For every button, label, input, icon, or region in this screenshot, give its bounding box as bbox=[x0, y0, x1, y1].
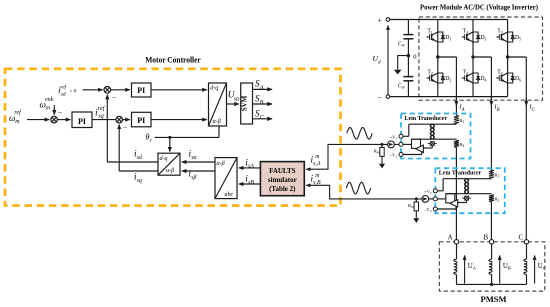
wire PI1 to dq-alphabeta block bbox=[151, 89, 207, 91]
capacitor leg wire bottom bbox=[407, 81, 409, 97]
svg-text:0: 0 bbox=[413, 53, 416, 60]
PI controller d-axis current (PI1) bbox=[132, 83, 152, 97]
svg-text:Lem Transducer: Lem Transducer bbox=[439, 170, 482, 177]
summing junction 1 (isd) bbox=[104, 87, 111, 94]
phase node A bbox=[436, 55, 439, 58]
wire isq feedback horizontal bbox=[119, 170, 158, 172]
sine wave symbol phase B bbox=[346, 182, 370, 194]
wire SVM output S_A bbox=[253, 88, 273, 90]
Lem Transducer B terminal M bbox=[433, 197, 437, 201]
svg-text:Power Module AC/DC (Voltage In: Power Module AC/DC (Voltage Inverter) bbox=[420, 3, 538, 12]
svg-text:m: m bbox=[46, 106, 51, 112]
transducer A measuring resistor RM bbox=[380, 148, 384, 157]
Lem Transducer A resistor R1 bbox=[454, 116, 459, 125]
svg-text:A: A bbox=[448, 234, 453, 242]
Lem Transducer A primary top wire bbox=[409, 123, 457, 125]
svg-text:sq: sq bbox=[98, 112, 104, 119]
svg-text:M: M bbox=[377, 151, 380, 155]
PMSM terminal B bbox=[489, 240, 493, 244]
summing junction 3 (isq) bbox=[116, 116, 123, 123]
svg-text:Motor Controller: Motor Controller bbox=[145, 56, 201, 65]
inverter leg A wire bbox=[437, 20, 439, 97]
Lem Transducer B terminal +Vc bbox=[433, 189, 437, 193]
Lem Transducer B mid terminal wire bbox=[435, 198, 446, 200]
transducer A ground bbox=[381, 156, 383, 164]
svg-text:–: – bbox=[111, 93, 116, 101]
transducer B ground bbox=[415, 211, 417, 219]
wire theta_r horizontal bbox=[155, 136, 220, 138]
svg-text:m: m bbox=[315, 154, 319, 160]
wire phase tap B bbox=[473, 56, 491, 58]
phase A line to PMSM bbox=[455, 147, 457, 242]
IGBT T6 with diode D6 bbox=[501, 73, 507, 76]
Lem Transducer A secondary bottom wire bbox=[412, 138, 457, 140]
wire junction1 to PI1 bbox=[111, 89, 130, 91]
DC bus negative rail bbox=[390, 96, 508, 98]
PMSM dashed box bbox=[439, 242, 544, 291]
wire phase tap C bbox=[508, 56, 527, 58]
svg-text:C: C bbox=[518, 234, 523, 242]
svg-text:5: 5 bbox=[501, 30, 503, 35]
wire dq block to SVM bbox=[227, 103, 239, 105]
svg-text:abc: abc bbox=[225, 192, 234, 198]
svg-text:d-q: d-q bbox=[160, 156, 168, 162]
dq to alpha-beta transformation block (voltage) bbox=[209, 83, 227, 126]
svg-text:3: 3 bbox=[466, 30, 468, 35]
PMSM winding B bbox=[491, 244, 493, 259]
svg-text:PMSM: PMSM bbox=[481, 294, 507, 304]
PMSM terminal A bbox=[454, 240, 458, 244]
svg-text:m: m bbox=[315, 173, 319, 179]
Lem Transducer B dashed box bbox=[435, 168, 505, 213]
wire isd feedback horizontal bbox=[107, 161, 158, 163]
Lem Transducer B secondary bottom wire bbox=[446, 193, 492, 195]
wire SVM output S_C bbox=[253, 118, 273, 120]
svg-text:2: 2 bbox=[431, 71, 433, 76]
svg-text:SVM: SVM bbox=[241, 95, 249, 111]
Lem Transducer B op-amp output wire bbox=[458, 202, 467, 204]
wire phase tap A bbox=[438, 56, 457, 58]
Lem Transducer A op-amp output wire bbox=[423, 147, 432, 149]
PMSM voltage arrow U_A bbox=[464, 256, 466, 284]
Lem Transducer B +Vc riser wire bbox=[442, 179, 444, 191]
svg-text:PI: PI bbox=[78, 117, 86, 126]
svg-text:enk: enk bbox=[45, 97, 54, 103]
Lem Transducer A op-amp loop bbox=[412, 139, 421, 148]
svg-text:5: 5 bbox=[519, 37, 521, 42]
svg-text:M: M bbox=[411, 205, 414, 209]
Lem Transducer B transformer winding bbox=[465, 179, 468, 194]
Lem Transducer B Hall element bbox=[465, 196, 469, 200]
phase A line from inverter bbox=[455, 57, 457, 116]
wire i_sA from FAULTS to abc block bbox=[239, 167, 261, 169]
wire measured current A into FAULTS bbox=[306, 144, 401, 169]
Ud voltage arrow bbox=[387, 26, 389, 95]
Lem Transducer B primary top wire bbox=[443, 178, 491, 180]
transducer B measuring resistor RM bbox=[414, 202, 418, 211]
IGBT T2 with diode D2 bbox=[432, 73, 438, 76]
Lem Transducer A terminal M bbox=[399, 142, 403, 146]
DC midpoint node 0 bbox=[407, 54, 410, 57]
Lem Transducer A -Vc wire bbox=[401, 154, 422, 156]
feedback arrow omega_enk into junction 2 bbox=[53, 105, 55, 115]
svg-text:B: B bbox=[508, 265, 511, 270]
svg-text:–: – bbox=[377, 92, 382, 101]
svg-text:α-β: α-β bbox=[166, 168, 174, 174]
wire speed PI to junction 3 bbox=[92, 119, 116, 121]
PMSM star point wire bbox=[457, 283, 527, 285]
svg-text:1: 1 bbox=[449, 37, 451, 42]
svg-text:+: + bbox=[377, 15, 381, 24]
svg-text:–: – bbox=[57, 108, 62, 116]
IGBT T1 with diode D1 bbox=[432, 32, 438, 35]
Lem Transducer B op-amp loop bbox=[446, 194, 455, 203]
Lem Transducer A Hall element bbox=[430, 142, 434, 146]
svg-text:d-q: d-q bbox=[210, 85, 218, 91]
svg-text:FAULTS: FAULTS bbox=[269, 167, 296, 175]
svg-text:(Table 2): (Table 2) bbox=[269, 185, 296, 193]
Lem Transducer A transformer winding bbox=[431, 124, 434, 139]
svg-text:6: 6 bbox=[501, 71, 503, 76]
PMSM voltage arrow U_C bbox=[534, 256, 536, 284]
Motor Controller dashed boundary box bbox=[5, 69, 341, 206]
wire i_sB from FAULTS to abc block bbox=[239, 183, 261, 185]
node on theta wire bbox=[168, 136, 171, 139]
inverter leg B wire bbox=[472, 20, 474, 97]
wire junction2 to speed PI bbox=[57, 119, 70, 121]
transducer B current direction circle bbox=[422, 196, 429, 203]
wire PI2 to dq-alphabeta block bbox=[151, 119, 207, 121]
svg-text:2: 2 bbox=[497, 198, 499, 202]
svg-text:1: 1 bbox=[462, 120, 464, 124]
capacitor CF top bbox=[403, 34, 413, 36]
PMSM star point node bbox=[490, 283, 493, 286]
wire theta up to tall dq block bbox=[218, 126, 220, 137]
svg-text:6: 6 bbox=[519, 78, 521, 83]
svg-text:3: 3 bbox=[484, 37, 486, 42]
wire junction3 to PI2 bbox=[123, 119, 130, 121]
svg-text:1: 1 bbox=[431, 30, 433, 35]
Lem Transducer A op-amp bbox=[416, 145, 424, 152]
speed PI controller bbox=[72, 112, 92, 128]
wire isd_ref to summing junction 1 bbox=[83, 89, 103, 91]
svg-text:B: B bbox=[483, 234, 488, 242]
phase node B bbox=[471, 55, 474, 58]
midpoint reference arrow bbox=[398, 56, 409, 70]
svg-text:α-β: α-β bbox=[213, 119, 221, 125]
Lem Transducer B resistor R2 bbox=[489, 195, 494, 202]
IGBT T5 with diode D5 bbox=[501, 32, 507, 35]
phase C line from inverter to PMSM bbox=[525, 57, 527, 242]
Lem Transducer A mid terminal wire bbox=[401, 143, 412, 145]
wire SVM output S_B bbox=[253, 103, 273, 105]
Lem Transducer B terminal -Vc bbox=[433, 207, 437, 211]
PMSM winding C bbox=[526, 244, 528, 259]
sine wave symbol phase A bbox=[347, 128, 372, 140]
capacitor leg wire top bbox=[407, 20, 409, 35]
phase B line to PMSM bbox=[490, 202, 492, 242]
arrow theta into small dq block bbox=[169, 137, 171, 151]
Lem Transducer A terminal +Vc bbox=[399, 134, 403, 138]
inverter dashed boundary box bbox=[419, 17, 543, 100]
phase node C bbox=[506, 55, 509, 58]
Lem Transducer A terminal -Vc bbox=[399, 153, 403, 157]
FAULTS simulator block bbox=[260, 162, 304, 196]
SVM block bbox=[241, 83, 253, 124]
svg-text:m: m bbox=[15, 119, 20, 125]
summing junction 2 (speed) bbox=[51, 116, 58, 123]
phase B line from inverter bbox=[490, 57, 492, 173]
Lem Transducer A dashed box bbox=[401, 114, 471, 159]
Lem Transducer B resistor R1 bbox=[489, 170, 494, 179]
svg-text:= 0: = 0 bbox=[70, 90, 77, 95]
Lem Transducer A resistor R2 bbox=[454, 140, 459, 147]
Lem Transducer B op-amp bbox=[450, 200, 458, 207]
svg-text:C: C bbox=[543, 265, 546, 270]
alpha-beta to abc transformation block bbox=[215, 158, 237, 199]
IGBT T3 with diode D3 bbox=[467, 32, 473, 35]
PMSM winding A bbox=[456, 244, 458, 259]
svg-text:1: 1 bbox=[497, 174, 499, 178]
PMSM voltage arrow U_B bbox=[499, 256, 501, 284]
capacitor CF bottom bbox=[403, 76, 413, 78]
Lem Transducer B -Vc wire bbox=[435, 208, 456, 210]
wire isq feedback vertical to junction3 bbox=[118, 125, 120, 171]
svg-text:–: – bbox=[122, 123, 127, 131]
Lem Transducer A +Vc riser wire bbox=[408, 124, 410, 136]
wire measured current B into FAULTS bbox=[306, 185, 435, 199]
inverter leg C wire bbox=[507, 20, 509, 97]
svg-text:2: 2 bbox=[462, 144, 464, 148]
wire omega_ref to summing junction 2 bbox=[27, 119, 49, 121]
svg-text:simulator: simulator bbox=[268, 176, 297, 184]
PI controller q-axis current (PI2) bbox=[132, 112, 152, 127]
transducer A current direction circle bbox=[388, 141, 395, 148]
DC bus positive rail bbox=[390, 19, 508, 21]
wire i_s-alpha into small dq block bbox=[182, 161, 215, 163]
svg-text:sα: sα bbox=[234, 96, 240, 102]
capacitor mid wire bbox=[407, 39, 409, 77]
svg-text:PI: PI bbox=[137, 116, 145, 125]
PMSM terminal C bbox=[524, 240, 528, 244]
wire i_s-beta into small dq block bbox=[182, 170, 215, 172]
svg-text:Lem Transducer: Lem Transducer bbox=[405, 115, 448, 122]
wire isd feedback vertical to junction1 bbox=[106, 95, 108, 162]
svg-text:sd: sd bbox=[61, 91, 66, 97]
svg-text:2: 2 bbox=[449, 78, 451, 83]
svg-text:PI: PI bbox=[137, 86, 145, 95]
IGBT T4 with diode D4 bbox=[467, 73, 473, 76]
dq to alpha-beta transformation block (current feedback) bbox=[158, 153, 180, 175]
svg-text:α-β: α-β bbox=[217, 161, 225, 167]
